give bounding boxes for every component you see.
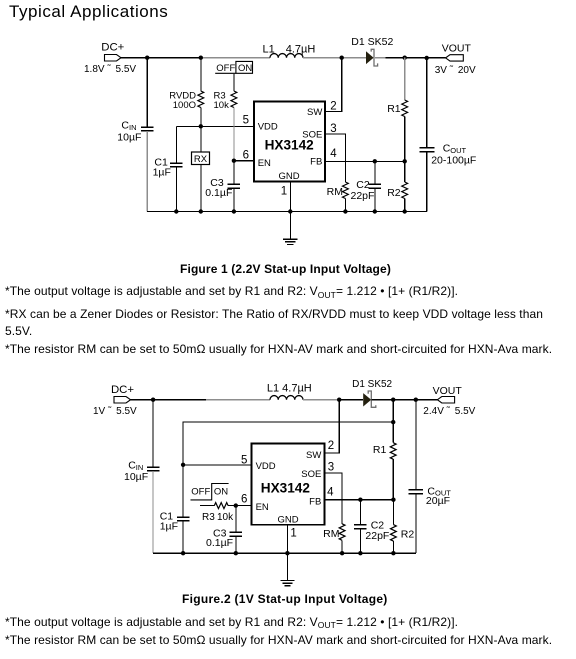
body text after figure 1 bbox=[5, 284, 458, 298]
svg-text:1µF: 1µF bbox=[153, 166, 171, 178]
resistor R3 10k fig2 bbox=[202, 503, 234, 523]
wire: C3 upper lead bbox=[233, 161, 235, 184]
svg-text:OFF: OFF bbox=[216, 63, 235, 74]
node: CIN tap bbox=[145, 56, 149, 60]
node: C2 to FB fig2 bbox=[358, 498, 362, 502]
wire: R1 upper lead fig2 bbox=[392, 400, 394, 443]
wire: R1 lower lead fig2 bbox=[392, 459, 394, 500]
svg-text:6: 6 bbox=[241, 493, 247, 505]
node: R2 to rail fig2 bbox=[391, 551, 395, 555]
svg-text:SW: SW bbox=[306, 450, 321, 461]
node: C1 to rail fig2 bbox=[181, 551, 185, 555]
svg-text:2: 2 bbox=[330, 100, 336, 112]
wire: R2 lower lead bbox=[404, 199, 406, 212]
wire: EN line bbox=[234, 160, 254, 162]
wire: RM lower lead fig2 bbox=[341, 540, 343, 553]
svg-text:HX3142: HX3142 bbox=[261, 480, 311, 495]
svg-text:0.1µF: 0.1µF bbox=[206, 537, 233, 549]
node: RX to rail bbox=[199, 209, 203, 213]
svg-text:SOE: SOE bbox=[301, 469, 321, 480]
wire: R2 upper lead bbox=[404, 161, 406, 182]
svg-text:OFF: OFF bbox=[191, 487, 210, 498]
op-amp U1 HX3142 fig2 bbox=[252, 444, 325, 526]
resistor R1 fig1 bbox=[387, 100, 407, 116]
svg-text:1: 1 bbox=[290, 527, 296, 539]
capacitor CIN bbox=[117, 120, 153, 144]
svg-text:EN: EN bbox=[258, 158, 271, 169]
svg-text:1.8V ˜ 5.5V: 1.8V ˜ 5.5V bbox=[84, 63, 136, 75]
node: SW tap fig2 bbox=[337, 398, 341, 402]
svg-text:10k: 10k bbox=[214, 100, 230, 111]
wire: RX upper lead bbox=[200, 126, 202, 152]
wire: C1 lower lead bbox=[175, 167, 177, 212]
ground fig1 bbox=[283, 239, 297, 244]
node: RVDD tap bbox=[199, 56, 203, 60]
svg-text:3V ˜ 20V: 3V ˜ 20V bbox=[435, 65, 476, 77]
wire: C2 lower lead bbox=[374, 188, 376, 212]
wire: FB line bbox=[325, 160, 405, 162]
svg-text:FB: FB bbox=[310, 156, 322, 167]
switch OFF/ON fig2 bbox=[191, 484, 229, 500]
wire: RVDD lower lead bbox=[200, 108, 202, 127]
svg-text:2.4V ˜ 5.5V: 2.4V ˜ 5.5V bbox=[423, 405, 475, 417]
node: C1 to rail bbox=[174, 209, 178, 213]
wire: VDD loop up and across fig2 bbox=[183, 422, 393, 465]
node: R1/R2 to FB fig2 bbox=[391, 498, 395, 502]
resistor RVDD 100O bbox=[169, 91, 203, 112]
wire: R2 lower lead fig2 bbox=[392, 541, 394, 553]
svg-text:3: 3 bbox=[330, 123, 336, 135]
wire: COUT lower lead bbox=[426, 151, 428, 211]
node: C2 to rail fig2 bbox=[358, 551, 362, 555]
wire: ground rail fig2 bbox=[153, 552, 416, 554]
wire: R1 node to VOUT fig2 bbox=[393, 399, 437, 401]
svg-text:L1 4.7µH: L1 4.7µH bbox=[263, 43, 316, 55]
svg-text:6: 6 bbox=[243, 149, 249, 161]
wire: RX lower lead bbox=[200, 165, 202, 212]
wire: SW node to diode fig2 bbox=[339, 399, 363, 401]
wire: R3 to EN fig2 bbox=[228, 505, 251, 507]
wire: inductor to diode fig2 bbox=[303, 399, 339, 401]
wire: R1 upper lead bbox=[404, 58, 406, 100]
node: VDD loop to R1 lead fig2 bbox=[391, 420, 395, 424]
svg-text:R2: R2 bbox=[401, 528, 415, 540]
wire: DC+ to inductor fig2 bbox=[131, 399, 207, 401]
wire: C2 upper lead fig2 bbox=[359, 500, 361, 525]
svg-text:2: 2 bbox=[328, 440, 334, 452]
wire: GND pin stem fig2 bbox=[286, 525, 288, 581]
wire: DC+ to RVDD node bbox=[121, 57, 201, 59]
svg-text:CIN: CIN bbox=[121, 120, 136, 132]
node: GND to rail fig2 bbox=[285, 551, 289, 555]
node: RM to rail fig2 bbox=[340, 551, 344, 555]
resistor RM fig2 bbox=[323, 524, 345, 540]
svg-text:COUT: COUT bbox=[443, 143, 467, 155]
VOUT output flag bbox=[435, 43, 476, 76]
wire: switch stem bbox=[233, 74, 235, 91]
wire: gray to inductor fig2 bbox=[206, 399, 270, 401]
node: R1 tap fig2 bbox=[391, 398, 395, 402]
svg-text:GND: GND bbox=[277, 515, 298, 526]
svg-text:RM: RM bbox=[323, 528, 339, 540]
svg-text:4: 4 bbox=[327, 487, 334, 499]
svg-text:22pF: 22pF bbox=[365, 530, 389, 542]
node: C2 to rail bbox=[373, 209, 377, 213]
wire: C1 lower lead fig2 bbox=[182, 521, 184, 554]
svg-text:ON: ON bbox=[238, 63, 252, 74]
wire: top rail gray to inductor bbox=[201, 57, 270, 59]
svg-text:D1 SK52: D1 SK52 bbox=[351, 36, 393, 48]
wire: C3 lower lead bbox=[233, 188, 235, 212]
svg-text:DC+: DC+ bbox=[111, 384, 134, 396]
svg-text:5: 5 bbox=[243, 114, 249, 126]
svg-text:FB: FB bbox=[309, 497, 321, 508]
resistor RM fig1 bbox=[327, 182, 349, 198]
diode D1 SK52 fig2 bbox=[352, 379, 392, 407]
capacitor C1 fig2 bbox=[160, 511, 190, 533]
inductor L1 bbox=[263, 43, 316, 57]
capacitor CIN fig2 bbox=[124, 460, 159, 484]
inductor L1 fig2 bbox=[267, 383, 312, 400]
capacitor COUT fig2 bbox=[409, 485, 452, 507]
svg-text:10k: 10k bbox=[217, 512, 234, 523]
svg-text:R3: R3 bbox=[202, 512, 215, 523]
node: R1/R2 to FB bbox=[403, 159, 407, 163]
node: VDD junction fig2 bbox=[181, 463, 185, 467]
wire: C3 upper lead fig2 bbox=[235, 506, 237, 533]
svg-text:RM: RM bbox=[327, 186, 343, 198]
figure 2 caption bbox=[182, 592, 388, 606]
resistor R2 fig1 bbox=[387, 182, 407, 199]
svg-text:SOE: SOE bbox=[302, 129, 322, 140]
wire: RVDD upper lead bbox=[200, 58, 202, 91]
node: C2 to FB bbox=[373, 159, 377, 163]
node: SW tap bbox=[340, 56, 344, 60]
resistor RX box bbox=[192, 152, 210, 165]
resistor R2 fig2 bbox=[391, 525, 415, 541]
op-amp U1 HX3142 fig1 bbox=[254, 102, 325, 183]
node: RVDD to VDD bbox=[199, 124, 203, 128]
switch OFF/ON fig1 bbox=[215, 61, 252, 74]
svg-text:20µF: 20µF bbox=[426, 495, 450, 507]
wire: C2 lower lead fig2 bbox=[359, 529, 361, 554]
svg-text:3: 3 bbox=[328, 462, 334, 474]
wire: switch to R3 fig2 bbox=[200, 505, 214, 507]
svg-text:1V ˜ 5.5V: 1V ˜ 5.5V bbox=[93, 405, 137, 417]
svg-text:R1: R1 bbox=[387, 103, 401, 115]
wire: R1 lower lead bbox=[404, 117, 406, 162]
wire: COUT lower lead fig2 bbox=[415, 494, 417, 554]
svg-text:R1: R1 bbox=[373, 444, 387, 456]
wire: GND pin stem bbox=[289, 182, 291, 240]
wire: VDD line bbox=[176, 125, 254, 127]
svg-text:1: 1 bbox=[281, 186, 287, 198]
wire: SW pin to top rail fig2 bbox=[325, 400, 340, 453]
wire: FB line fig2 bbox=[325, 499, 394, 501]
wire: C1 upper lead fig2 bbox=[182, 465, 184, 517]
svg-text:0.1µF: 0.1µF bbox=[205, 187, 232, 199]
diode D1 SK52 bbox=[351, 36, 393, 66]
wire: VDD line fig2 bbox=[183, 464, 251, 466]
svg-text:EN: EN bbox=[256, 502, 269, 513]
svg-text:10µF: 10µF bbox=[117, 131, 141, 143]
wire: R3 lower lead to EN bbox=[233, 108, 235, 161]
svg-text:RX: RX bbox=[194, 154, 208, 165]
wire: CIN upper lead fig2 bbox=[152, 400, 154, 467]
wire: SOE pin to RM fig2 bbox=[325, 473, 343, 524]
wire: C1 upper lead bbox=[175, 126, 177, 163]
capacitor C3 fig2 bbox=[206, 528, 242, 550]
wire: RM lower lead bbox=[344, 199, 346, 212]
wire: R2 upper lead fig2 bbox=[392, 500, 394, 525]
wire: C2 upper lead bbox=[374, 161, 376, 184]
svg-text:10µF: 10µF bbox=[124, 471, 148, 483]
node: COUT tap fig2 bbox=[414, 398, 418, 402]
wire: SW pin to top rail bbox=[325, 58, 342, 112]
wire: C3 lower lead fig2 bbox=[235, 536, 237, 553]
wire: COUT upper lead bbox=[426, 58, 428, 147]
svg-text:5: 5 bbox=[241, 454, 247, 466]
node: C3 to rail bbox=[232, 209, 236, 213]
DC+ input flag bbox=[84, 41, 136, 74]
wire: SOE pin to RM bbox=[325, 134, 345, 182]
svg-text:ON: ON bbox=[214, 487, 228, 498]
resistor R1 fig2 bbox=[373, 443, 396, 459]
VOUT output flag fig2 bbox=[423, 385, 475, 417]
svg-text:SW: SW bbox=[307, 107, 322, 118]
node: R2 to rail bbox=[403, 209, 407, 213]
svg-text:DC+: DC+ bbox=[101, 41, 124, 53]
capacitor C1 bbox=[153, 156, 183, 178]
node: COUT tap bbox=[425, 56, 429, 60]
svg-text:4: 4 bbox=[330, 148, 337, 160]
wire: diode to R1 node fig2 bbox=[371, 399, 393, 401]
DC+ input flag fig2 bbox=[93, 384, 137, 417]
svg-text:VDD: VDD bbox=[258, 121, 278, 132]
wire: COUT upper lead fig2 bbox=[415, 400, 417, 490]
node: EN junction bbox=[232, 159, 236, 163]
node: EN junction fig2 bbox=[234, 503, 238, 507]
svg-text:VOUT: VOUT bbox=[433, 385, 463, 397]
svg-text:D1 SK52: D1 SK52 bbox=[352, 379, 392, 390]
svg-text:1µF: 1µF bbox=[160, 520, 178, 532]
svg-text:20-100µF: 20-100µF bbox=[431, 155, 476, 167]
node: CIN tap fig2 bbox=[151, 398, 155, 402]
wire: CIN lower lead bbox=[146, 131, 148, 212]
svg-text:100O: 100O bbox=[173, 100, 196, 111]
wire: CIN lower lead fig2 bbox=[152, 471, 154, 553]
svg-text:R2: R2 bbox=[387, 187, 401, 199]
wire: R1 node to VOUT bbox=[385, 57, 445, 59]
wire: diode to R1 node bbox=[375, 57, 386, 59]
capacitor C3 bbox=[205, 177, 240, 199]
ground fig2 bbox=[280, 581, 294, 586]
node: GND to rail bbox=[288, 209, 292, 213]
page title bbox=[9, 2, 168, 22]
capacitor C2 fig2 bbox=[354, 520, 389, 543]
svg-text:L1 4.7µH: L1 4.7µH bbox=[267, 383, 312, 395]
body text after figure 2 bbox=[5, 615, 458, 629]
node: C3 to rail fig2 bbox=[234, 551, 238, 555]
wire: ground rail fig1 bbox=[147, 211, 427, 213]
svg-text:GND: GND bbox=[278, 171, 299, 182]
resistor R3 10k fig1 bbox=[214, 91, 237, 112]
svg-text:VDD: VDD bbox=[256, 461, 276, 472]
wire: CIN upper lead bbox=[146, 58, 148, 127]
capacitor C2 fig1 bbox=[351, 179, 382, 202]
wire: inductor to diode bbox=[303, 57, 366, 59]
svg-text:VOUT: VOUT bbox=[442, 43, 472, 55]
node: RM to rail bbox=[343, 209, 347, 213]
figure 1 caption bbox=[180, 262, 391, 276]
node: R1 tap bbox=[403, 56, 407, 60]
capacitor COUT fig1 bbox=[420, 143, 477, 167]
svg-text:22pF: 22pF bbox=[351, 190, 375, 202]
